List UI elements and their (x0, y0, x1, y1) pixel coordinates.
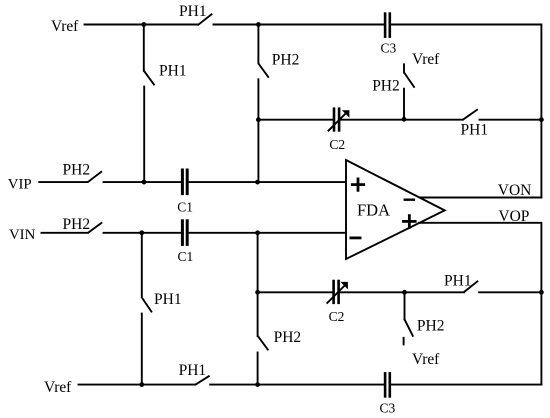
svg-text:PH1: PH1 (154, 291, 182, 308)
svg-text:PH1: PH1 (444, 273, 472, 290)
svg-text:PH2: PH2 (63, 216, 91, 233)
svg-text:C2: C2 (329, 309, 345, 324)
svg-text:VIP: VIP (8, 177, 32, 193)
svg-text:Vref: Vref (412, 51, 440, 68)
svg-text:PH2: PH2 (372, 77, 400, 94)
svg-text:PH1: PH1 (179, 362, 207, 379)
svg-text:VOP: VOP (498, 208, 529, 225)
svg-text:PH2: PH2 (63, 162, 91, 179)
svg-text:Vref: Vref (51, 18, 79, 35)
svg-text:PH2: PH2 (274, 329, 302, 346)
svg-text:FDA: FDA (357, 201, 390, 220)
svg-text:PH1: PH1 (159, 63, 187, 80)
svg-text:PH2: PH2 (417, 318, 445, 335)
svg-text:C2: C2 (329, 137, 345, 152)
svg-text:C1: C1 (177, 199, 193, 214)
svg-text:PH1: PH1 (179, 3, 207, 20)
svg-text:C3: C3 (380, 401, 396, 416)
svg-text:VON: VON (498, 182, 532, 199)
svg-text:Vref: Vref (44, 379, 72, 396)
svg-text:C1: C1 (178, 249, 194, 264)
svg-text:C3: C3 (381, 40, 397, 55)
svg-text:VIN: VIN (9, 227, 36, 243)
svg-text:PH1: PH1 (461, 122, 489, 139)
svg-text:Vref: Vref (412, 351, 440, 368)
svg-text:PH2: PH2 (272, 51, 300, 68)
